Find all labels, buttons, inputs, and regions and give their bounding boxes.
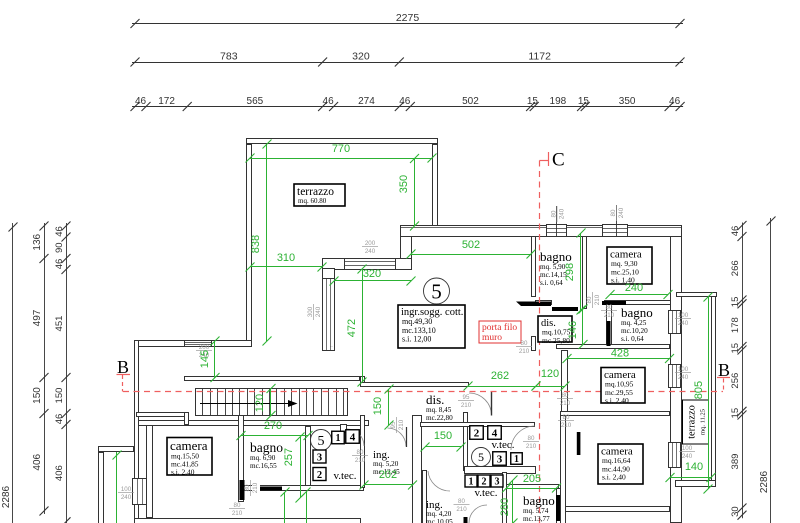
svg-text:210: 210	[461, 402, 472, 409]
svg-text:240: 240	[559, 208, 566, 219]
svg-text:838: 838	[250, 235, 262, 253]
svg-text:198: 198	[550, 96, 567, 107]
svg-text:210: 210	[560, 400, 571, 407]
svg-text:805: 805	[693, 381, 705, 399]
dis 10,75 label	[538, 316, 572, 342]
balcony right parapet	[712, 297, 716, 487]
svg-text:30: 30	[730, 506, 741, 517]
step wall below terrace right	[401, 237, 412, 269]
stub	[185, 413, 189, 425]
wall left of camera 16,64	[561, 416, 566, 523]
svg-text:2275: 2275	[396, 12, 420, 24]
svg-text:2286: 2286	[1, 485, 12, 508]
svg-text:mq. 60.80: mq. 60.80	[298, 197, 327, 205]
svg-text:80: 80	[562, 392, 569, 399]
svg-text:B: B	[117, 357, 129, 377]
svg-text:145: 145	[199, 350, 211, 368]
svg-text:80: 80	[606, 304, 613, 311]
svg-text:3: 3	[495, 477, 500, 488]
terrazzo right label (rotated)	[683, 400, 709, 444]
svg-text:B: B	[718, 360, 730, 380]
wall below bagno	[536, 301, 552, 305]
svg-text:2: 2	[482, 477, 487, 488]
svg-text:5: 5	[431, 279, 442, 303]
svg-text:240: 240	[678, 320, 689, 327]
window center marks	[556, 206, 558, 236]
window right wall 3	[669, 443, 681, 468]
flush sliding door leaves	[516, 302, 551, 307]
window top wall 1	[547, 225, 567, 237]
svg-text:240: 240	[121, 494, 132, 501]
svg-text:783: 783	[220, 51, 238, 63]
svg-text:C: C	[552, 150, 565, 171]
wall below dis and bagno 4,25	[557, 345, 670, 349]
svg-text:s.i. 2,40: s.i. 2,40	[171, 468, 195, 477]
svg-text:150: 150	[372, 397, 384, 415]
svg-text:240: 240	[365, 248, 376, 255]
svg-text:100: 100	[678, 312, 689, 319]
camera 15,50 label	[167, 438, 212, 476]
bagno south wall	[243, 486, 364, 491]
camera bottom wall	[135, 519, 361, 523]
svg-text:262: 262	[491, 370, 509, 382]
svg-text:80: 80	[610, 209, 617, 216]
wall left of ing	[361, 416, 365, 488]
left dimension chain 136/497/150/406	[44, 223, 46, 514]
svg-text:100: 100	[678, 366, 689, 373]
svg-text:mq. 11.25: mq. 11.25	[700, 409, 707, 435]
grey size labels	[362, 240, 378, 255]
door arc ing 4,20 top	[428, 471, 450, 491]
svg-text:240: 240	[315, 306, 322, 317]
svg-text:v.tec.: v.tec.	[474, 487, 497, 499]
svg-text:100: 100	[121, 486, 132, 493]
svg-text:178: 178	[730, 317, 741, 333]
wall left of bagno 5,90 upper	[532, 237, 536, 297]
left balcony top parapet	[99, 447, 134, 452]
svg-text:15: 15	[730, 343, 741, 354]
left balcony parapet	[99, 453, 104, 523]
svg-text:4: 4	[350, 431, 356, 443]
svg-text:15: 15	[527, 96, 539, 107]
balcony bottom parapet	[676, 481, 716, 487]
left wall inner leaf	[147, 421, 153, 518]
svg-text:205: 205	[523, 473, 541, 485]
wall above bagno 5,74	[507, 485, 559, 489]
svg-text:2: 2	[474, 427, 480, 439]
window ingr top wall	[345, 259, 396, 270]
window left wall lower	[133, 479, 147, 505]
ingr sogg cott label	[398, 305, 465, 348]
svg-text:46: 46	[135, 96, 147, 107]
staircase	[196, 389, 348, 416]
long window left wall	[323, 279, 335, 351]
wall left of vtec B	[464, 413, 468, 471]
svg-text:300: 300	[307, 306, 314, 317]
wall left of camera 10,95	[562, 351, 568, 412]
svg-text:202: 202	[379, 469, 397, 481]
svg-text:mc.133,10: mc.133,10	[402, 326, 436, 335]
svg-text:bagno: bagno	[250, 440, 283, 455]
right dimension chain detail	[742, 223, 744, 519]
svg-text:200: 200	[199, 344, 210, 351]
small green helper lines	[116, 452, 118, 523]
svg-text:mq. 8,45: mq. 8,45	[426, 406, 452, 414]
wall below camera 9,30	[605, 301, 671, 305]
terrace left parapet	[247, 145, 252, 342]
svg-text:80: 80	[357, 449, 364, 456]
svg-text:210: 210	[594, 294, 601, 305]
svg-text:2286: 2286	[759, 470, 770, 493]
shaft numbers cluster A	[311, 430, 332, 451]
svg-text:240: 240	[682, 453, 693, 460]
camera 10,95 label	[601, 368, 645, 404]
wall right of bagno 6,90	[306, 427, 311, 489]
svg-text:mq. 4,20: mq. 4,20	[426, 510, 452, 518]
svg-text:320: 320	[363, 268, 381, 280]
camera 16,64 label	[598, 444, 643, 484]
svg-text:210: 210	[604, 312, 615, 319]
svg-text:46: 46	[399, 96, 411, 107]
svg-text:350: 350	[398, 175, 410, 193]
svg-text:porta filo: porta filo	[482, 322, 517, 333]
porta filo muro note	[479, 321, 521, 343]
svg-text:mc.25,80: mc.25,80	[542, 336, 570, 345]
svg-text:15: 15	[730, 408, 741, 419]
svg-text:mq. 4,25: mq. 4,25	[621, 319, 647, 327]
svg-text:3: 3	[317, 452, 322, 463]
wall left of bagno 5,90 lower	[532, 337, 536, 351]
svg-text:270: 270	[264, 420, 282, 432]
window right wall 1	[669, 311, 681, 334]
svg-text:150: 150	[54, 388, 65, 404]
svg-text:257: 257	[283, 448, 295, 466]
svg-text:136: 136	[32, 233, 43, 250]
terrace top parapet	[247, 139, 438, 144]
vtec B bottom wall	[465, 467, 536, 474]
svg-text:150: 150	[434, 430, 452, 442]
svg-text:s.i. 2,40: s.i. 2,40	[605, 396, 629, 405]
svg-text:muro: muro	[482, 333, 502, 343]
svg-text:bagno: bagno	[523, 493, 555, 508]
shaft numbers cluster B	[470, 426, 484, 440]
svg-text:120: 120	[254, 394, 266, 412]
svg-text:210: 210	[456, 506, 467, 513]
svg-text:46: 46	[54, 414, 65, 425]
left dimension chain detail	[66, 223, 68, 523]
door leaf bars	[552, 307, 578, 311]
stairs direction arrow	[200, 403, 288, 405]
window below terrace	[185, 341, 212, 347]
section line C	[539, 161, 541, 523]
svg-text:mq.49,30: mq.49,30	[402, 317, 432, 326]
green dims	[250, 158, 432, 160]
svg-text:mc.22,80: mc.22,80	[426, 414, 453, 422]
camera 16,64 bottom wall	[566, 507, 670, 512]
svg-text:46: 46	[54, 259, 65, 270]
svg-text:80: 80	[234, 502, 241, 509]
shaft numbers cluster C	[465, 475, 477, 487]
wall bagno/camera	[583, 237, 587, 309]
corridor top wall	[361, 383, 469, 387]
svg-text:210: 210	[398, 419, 405, 430]
svg-text:46: 46	[730, 226, 741, 237]
svg-text:80: 80	[563, 414, 570, 421]
svg-text:80: 80	[550, 210, 557, 217]
svg-text:210: 210	[561, 422, 572, 429]
door arc vtec A	[347, 429, 364, 446]
svg-text:451: 451	[54, 316, 65, 332]
svg-text:95: 95	[390, 421, 397, 428]
main top outer wall	[401, 226, 682, 237]
svg-text:310: 310	[277, 252, 295, 264]
svg-text:280: 280	[499, 498, 511, 516]
svg-text:502: 502	[462, 96, 479, 107]
svg-text:210: 210	[519, 348, 530, 355]
bottom rooms top wall	[139, 421, 369, 426]
svg-text:200: 200	[365, 240, 376, 247]
thick wall right of ing	[413, 416, 422, 523]
wall below terrace	[135, 341, 252, 347]
svg-text:dis.: dis.	[426, 392, 444, 407]
svg-text:46: 46	[669, 96, 681, 107]
section line B-B	[123, 391, 723, 393]
svg-text:90: 90	[54, 242, 65, 253]
door jamb jut	[341, 425, 347, 433]
window top wall 2	[603, 225, 628, 237]
svg-text:502: 502	[462, 239, 480, 251]
svg-text:406: 406	[54, 465, 65, 481]
right outer wall	[671, 237, 682, 523]
svg-text:472: 472	[346, 319, 358, 337]
svg-text:2: 2	[317, 470, 322, 481]
svg-text:s.i. 0,64: s.i. 0,64	[540, 279, 563, 287]
svg-text:172: 172	[158, 96, 175, 107]
bagno 5,74 left wall	[503, 473, 507, 523]
svg-text:15: 15	[578, 96, 590, 107]
apartment number 5	[424, 278, 450, 304]
balcony top parapet	[677, 293, 717, 297]
svg-text:1: 1	[469, 477, 474, 488]
svg-text:120: 120	[541, 368, 559, 380]
svg-text:1: 1	[336, 433, 341, 444]
svg-text:s.i. 0,64: s.i. 0,64	[621, 335, 644, 343]
door arc ing 4,20 bottom	[469, 505, 487, 523]
svg-text:ing.: ing.	[426, 499, 443, 511]
svg-text:210: 210	[355, 457, 366, 464]
svg-text:s.i. 12,00: s.i. 12,00	[402, 335, 431, 344]
left outer wall lower	[135, 341, 139, 523]
svg-text:bagno: bagno	[540, 249, 572, 264]
svg-text:350: 350	[619, 96, 636, 107]
svg-text:80: 80	[521, 340, 528, 347]
svg-text:3: 3	[497, 453, 503, 465]
svg-text:146: 146	[567, 321, 579, 339]
svg-text:210: 210	[526, 443, 537, 450]
svg-text:mq. 5,90: mq. 5,90	[540, 263, 566, 271]
svg-text:406: 406	[32, 453, 43, 470]
svg-text:565: 565	[247, 96, 264, 107]
svg-text:1172: 1172	[528, 51, 551, 63]
ingr top wall	[323, 259, 412, 270]
svg-text:46: 46	[323, 96, 335, 107]
svg-text:bagno: bagno	[621, 305, 653, 320]
wall below stairs	[137, 413, 188, 417]
corridor top wall thin	[185, 377, 360, 381]
terrace right parapet	[433, 145, 438, 227]
vtec B top wall	[421, 423, 535, 427]
svg-text:240: 240	[625, 282, 643, 294]
door arc vtec B	[511, 426, 535, 450]
svg-text:240: 240	[678, 374, 689, 381]
svg-text:v.tec.: v.tec.	[333, 470, 356, 482]
svg-text:mc.10,20: mc.10,20	[621, 327, 648, 335]
svg-text:mq. 5,74: mq. 5,74	[523, 507, 549, 515]
window right wall 2	[669, 365, 681, 388]
wall dis/bagno 4,25	[607, 305, 612, 347]
svg-text:80: 80	[586, 296, 593, 303]
svg-text:210: 210	[232, 510, 243, 517]
bagno 5,74 right wall	[557, 489, 561, 523]
svg-text:770: 770	[332, 143, 350, 155]
svg-text:150: 150	[32, 387, 43, 404]
right dimension chain 2286	[770, 218, 772, 523]
svg-text:ing.: ing.	[373, 449, 390, 461]
svg-text:1: 1	[514, 454, 519, 465]
svg-text:mc.10,05: mc.10,05	[426, 518, 453, 523]
top dimension chain total 2275	[132, 23, 683, 25]
svg-text:5: 5	[478, 450, 484, 464]
svg-text:46: 46	[54, 226, 65, 237]
wall between camera 10,95 and 16,64	[561, 412, 670, 416]
svg-text:80: 80	[244, 484, 251, 491]
svg-text:mc.13,77: mc.13,77	[523, 515, 550, 523]
svg-text:95: 95	[463, 394, 470, 401]
svg-text:256: 256	[730, 373, 741, 389]
svg-text:5: 5	[318, 434, 325, 449]
wall face right of ing lower	[423, 471, 427, 523]
left dimension chain 2286	[12, 223, 14, 523]
svg-text:terrazzo: terrazzo	[687, 405, 698, 439]
svg-text:80: 80	[528, 435, 535, 442]
terrazzo label	[294, 184, 345, 206]
svg-text:389: 389	[730, 454, 741, 470]
svg-text:274: 274	[358, 96, 375, 107]
svg-text:4: 4	[492, 427, 498, 439]
svg-text:15: 15	[730, 297, 741, 308]
door arc dis	[469, 393, 492, 416]
corridor wall jog	[361, 377, 365, 387]
wall camera/bagno	[239, 416, 244, 502]
svg-text:v.tec.: v.tec.	[491, 439, 514, 451]
svg-text:mc.16,55: mc.16,55	[250, 462, 277, 470]
svg-text:mq. 5,20: mq. 5,20	[373, 460, 399, 468]
svg-text:100: 100	[682, 445, 693, 452]
door arc ing 5,20	[388, 428, 407, 447]
svg-text:320: 320	[352, 51, 370, 63]
svg-text:266: 266	[730, 260, 741, 276]
top dimension chain 783/320/1172	[132, 62, 683, 64]
svg-text:140: 140	[685, 461, 703, 473]
left wall of ingr (window wall)	[323, 269, 335, 351]
top dimension chain detailed	[132, 106, 683, 108]
camera 9,30 label	[607, 247, 652, 284]
svg-text:497: 497	[32, 309, 43, 326]
svg-text:428: 428	[611, 348, 629, 360]
svg-text:s.i. 2,40: s.i. 2,40	[602, 473, 626, 482]
svg-text:80: 80	[458, 498, 465, 505]
svg-text:mq. 6,90: mq. 6,90	[250, 454, 276, 462]
svg-text:240: 240	[618, 207, 625, 218]
svg-text:298: 298	[564, 263, 576, 281]
svg-text:210: 210	[252, 482, 259, 493]
